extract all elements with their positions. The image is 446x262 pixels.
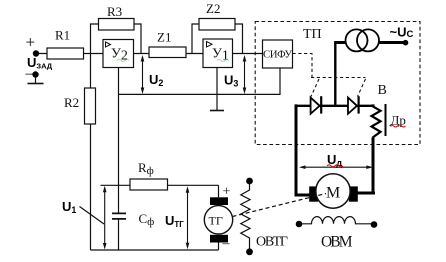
svg-text:ОВТГ: ОВТГ bbox=[256, 235, 288, 250]
svg-text:~UС: ~UС bbox=[390, 25, 414, 41]
svg-text:R1: R1 bbox=[55, 28, 70, 43]
svg-text:U2: U2 bbox=[149, 72, 163, 88]
svg-text:ТГ: ТГ bbox=[209, 214, 223, 228]
svg-text:М: М bbox=[326, 185, 340, 202]
svg-text:UТГ: UТГ bbox=[165, 213, 184, 229]
svg-text:+: + bbox=[223, 185, 231, 200]
svg-text:У1: У1 bbox=[212, 47, 229, 64]
svg-text:У2: У2 bbox=[111, 47, 128, 64]
svg-text:–: – bbox=[222, 236, 231, 251]
svg-text:+: + bbox=[26, 33, 36, 52]
svg-text:Z1: Z1 bbox=[157, 30, 171, 45]
svg-text:ТП: ТП bbox=[303, 27, 322, 42]
svg-text:R3: R3 bbox=[107, 4, 122, 19]
svg-text:Сф: Сф bbox=[139, 211, 155, 228]
svg-text:U3: U3 bbox=[224, 73, 238, 89]
svg-text:Z2: Z2 bbox=[206, 1, 220, 16]
svg-text:Rф: Rф bbox=[138, 160, 154, 177]
svg-text:ОВМ: ОВМ bbox=[321, 234, 353, 251]
svg-text:СИФУ: СИФУ bbox=[263, 49, 292, 61]
svg-text:R2: R2 bbox=[64, 95, 79, 110]
svg-text:U1: U1 bbox=[62, 199, 76, 215]
svg-text:В: В bbox=[378, 83, 387, 98]
